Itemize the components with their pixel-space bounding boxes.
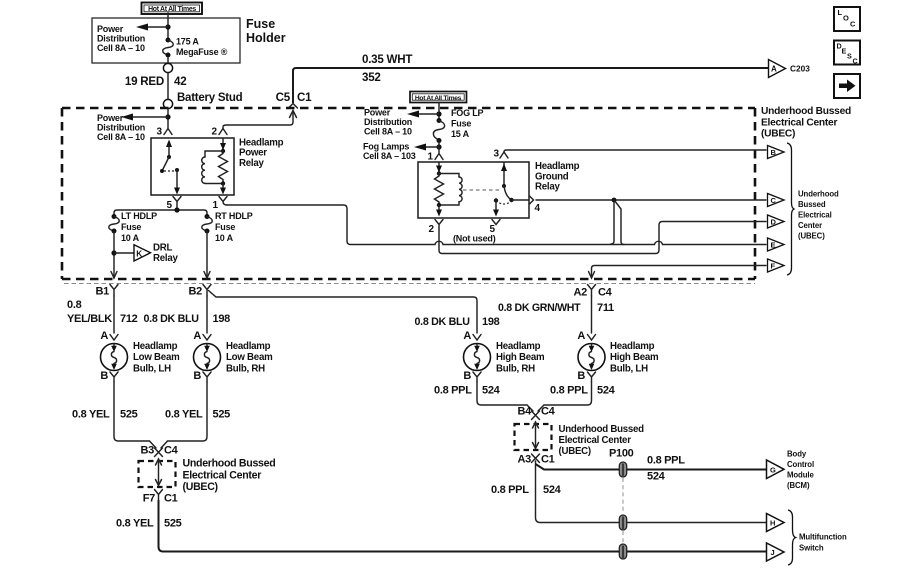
relay coil (power relay)	[202, 139, 228, 195]
svg-text:524: 524	[543, 484, 562, 496]
svg-text:Power: Power	[97, 24, 124, 34]
label Body Control Module (BCM)	[787, 450, 814, 491]
svg-text:0.8 YEL: 0.8 YEL	[116, 518, 154, 530]
UBEC pass-through box (high beam)	[515, 422, 552, 450]
svg-text:0.8 DK BLU: 0.8 DK BLU	[415, 316, 471, 328]
connector P100 (pass-through on H wire)	[619, 515, 626, 530]
node junction to power distribution	[165, 114, 170, 119]
svg-text:FOG LP: FOG LP	[451, 108, 483, 118]
svg-text:Relay: Relay	[535, 182, 560, 193]
wire B2 tap to high beam RH	[209, 291, 478, 334]
wire junction drop to connector E	[615, 201, 625, 245]
svg-text:524: 524	[482, 385, 501, 397]
thin connector-face dashed line	[64, 283, 755, 285]
bulb headlamp low beam RH	[194, 344, 221, 371]
wire RT fuse down to B2	[206, 231, 208, 278]
svg-text:J: J	[771, 548, 775, 557]
svg-text:Multifunction: Multifunction	[799, 533, 847, 542]
connector B1	[96, 285, 118, 298]
wire battery stud into UBEC	[167, 109, 169, 129]
node DRL relay tap	[111, 250, 116, 255]
pin A headlamp high beam RH	[463, 330, 481, 342]
svg-text:1: 1	[427, 152, 433, 163]
connector B	[768, 146, 785, 159]
svg-text:K: K	[136, 250, 142, 259]
fuse FOG LP 15A	[433, 118, 444, 143]
wire 0.8 DK GRN/WHT 711	[591, 296, 593, 333]
svg-text:C4: C4	[598, 287, 613, 299]
wire bus under power relay	[114, 210, 207, 216]
svg-text:524: 524	[597, 385, 616, 397]
pin 1 of headlamp ground relay	[427, 141, 443, 163]
svg-text:2: 2	[211, 127, 217, 138]
svg-text:Power: Power	[97, 113, 124, 123]
svg-text:525: 525	[120, 409, 138, 421]
connector B2	[189, 285, 211, 298]
svg-text:19 RED: 19 RED	[125, 75, 164, 88]
svg-text:(UBEC): (UBEC)	[183, 481, 218, 493]
wire label 0.8 YEL 525	[116, 518, 182, 530]
svg-text:0.8 PPL: 0.8 PPL	[647, 455, 685, 467]
label Power Distribution Cell 8A-10 (fuse holder)	[97, 24, 145, 53]
svg-text:(BCM): (BCM)	[787, 481, 810, 490]
pin 4 of headlamp ground relay	[530, 196, 541, 214]
node battery feed junction in fuse holder	[165, 24, 170, 29]
node Battery Stud	[163, 99, 172, 108]
wire 0.8 PPL 524 RH	[477, 382, 533, 411]
svg-text:B: B	[193, 370, 201, 382]
svg-text:High Beam: High Beam	[496, 352, 545, 363]
svg-text:Headlamp: Headlamp	[226, 341, 271, 352]
pin 2 of headlamp ground relay	[428, 220, 443, 236]
wire 0.8 PPL 524 LH	[538, 382, 592, 411]
label Headlamp Low Beam Bulb, RH	[226, 341, 273, 374]
svg-text:0.8 DK BLU: 0.8 DK BLU	[144, 313, 200, 325]
svg-text:Fuse: Fuse	[246, 17, 275, 31]
pin B headlamp high beam RH	[463, 370, 481, 382]
svg-text:Relay: Relay	[239, 158, 264, 169]
svg-text:Bulb, LH: Bulb, LH	[610, 363, 648, 374]
svg-text:Power: Power	[364, 108, 391, 118]
svg-text:B1: B1	[96, 286, 110, 298]
svg-text:711: 711	[597, 302, 614, 314]
label Power Distribution Cell 8A-10 (UBEC)	[97, 113, 145, 142]
label Underhood Bussed Electrical Center (UBEC) low beam	[183, 458, 276, 494]
pin 5 of headlamp ground relay (not used)	[453, 220, 500, 244]
svg-text:A: A	[100, 330, 108, 342]
svg-text:352: 352	[362, 71, 381, 84]
svg-text:P100: P100	[609, 448, 634, 460]
svg-text:Electrical Center: Electrical Center	[183, 470, 262, 482]
connector H (multifunction switch)	[767, 514, 785, 532]
label LT HDLP Fuse 10 A	[121, 211, 157, 243]
svg-text:O: O	[843, 14, 849, 23]
wire label 0.8 YEL/BLK 712	[67, 299, 138, 325]
wire 0.8 YEL 525 to multifunction switch J	[159, 500, 767, 552]
wire to DRL relay	[114, 252, 134, 254]
wire label 0.8 PPL 524 (drop)	[491, 484, 562, 496]
svg-text:524: 524	[647, 471, 666, 483]
svg-text:Cell 8A – 10: Cell 8A – 10	[97, 43, 145, 53]
svg-text:Low Beam: Low Beam	[226, 352, 273, 363]
wire label 0.35 WHT 352	[362, 53, 412, 84]
pin B headlamp low beam RH	[193, 370, 211, 382]
label "Hot At All Times" (fuse holder)	[142, 3, 203, 15]
svg-text:0.8 PPL: 0.8 PPL	[491, 484, 529, 496]
svg-text:Bussed: Bussed	[798, 200, 826, 209]
svg-text:Control: Control	[787, 460, 814, 469]
wire arrow to Power Distribution (UBEC)	[121, 114, 168, 121]
pin 3 of headlamp power relay	[156, 127, 172, 138]
svg-text:Distribution: Distribution	[97, 123, 145, 133]
brace UBEC connectors	[787, 143, 795, 275]
svg-text:F: F	[771, 262, 776, 271]
svg-text:0.8 YEL: 0.8 YEL	[72, 409, 110, 421]
connector J (multifunction switch)	[767, 543, 785, 561]
ring terminal at fuse holder	[163, 63, 172, 72]
bulb headlamp low beam LH	[101, 344, 128, 371]
wire label 0.8 PPL 524 LH	[550, 385, 616, 397]
pin B headlamp high beam LH	[577, 370, 595, 382]
wire power relay pin1 to connector E	[227, 205, 766, 245]
label Multifunction Switch	[799, 533, 847, 553]
wire pin2 to connector D	[439, 222, 766, 254]
svg-text:Underhood: Underhood	[798, 190, 839, 199]
svg-text:(UBEC): (UBEC)	[761, 129, 795, 140]
svg-text:C1: C1	[541, 454, 555, 466]
label Underhood Bussed Electrical Center (UBEC) top right	[761, 106, 851, 140]
node fog power junction	[436, 111, 441, 116]
connector A2 C4	[574, 285, 613, 299]
svg-text:Bulb, RH: Bulb, RH	[496, 363, 535, 374]
svg-text:Underhood Bussed: Underhood Bussed	[559, 424, 645, 435]
svg-text:C5: C5	[276, 91, 291, 104]
svg-text:10 A: 10 A	[215, 233, 234, 243]
svg-text:Headlamp: Headlamp	[496, 341, 541, 352]
connector A3 C1	[518, 454, 555, 466]
svg-text:Cell 8A – 10: Cell 8A – 10	[97, 132, 145, 142]
connector P100 (pass-through on J wire)	[619, 544, 626, 559]
fuse 175A MegaFuse	[163, 38, 174, 58]
relay box: headlamp power relay	[151, 138, 234, 195]
svg-text:B2: B2	[189, 286, 203, 298]
wire label 19 RED 42	[125, 75, 187, 88]
svg-text:0.8 PPL: 0.8 PPL	[434, 385, 472, 397]
relay switch contact (ground relay)	[493, 163, 529, 217]
node headlamp feed junction	[612, 198, 617, 203]
svg-text:3: 3	[156, 127, 162, 138]
wire label 0.8 PPL 524 RH	[434, 385, 501, 397]
value label 175 A MegaFuse	[176, 37, 228, 58]
svg-text:Module: Module	[787, 471, 814, 480]
wire A3 C1 down to multifunction switch H	[536, 461, 767, 523]
wire from Hot At All Times to fuse F1	[167, 13, 169, 39]
svg-text:A: A	[771, 65, 777, 74]
svg-text:Electrical: Electrical	[798, 211, 832, 220]
svg-text:Underhood Bussed: Underhood Bussed	[761, 106, 851, 117]
connector F	[768, 259, 785, 272]
svg-text:(Not used): (Not used)	[453, 234, 496, 244]
svg-text:525: 525	[164, 518, 182, 530]
wire 0.8 DK BLU 198 (B2 to RH low bulb)	[206, 296, 208, 333]
wire junction drop to low-beam feed	[611, 200, 614, 244]
bulb headlamp high beam LH	[578, 344, 605, 371]
connector G (BCM)	[767, 460, 785, 479]
svg-text:198: 198	[482, 316, 500, 328]
P100 dashed gang line lower	[622, 531, 624, 543]
svg-text:F7: F7	[143, 493, 155, 505]
next-page arrow box	[834, 74, 860, 98]
label RT HDLP Fuse 10 A	[215, 211, 253, 243]
wire pin4 to connector C	[536, 199, 766, 201]
connector D	[768, 215, 785, 228]
connector C	[768, 194, 785, 207]
svg-text:Low Beam: Low Beam	[133, 352, 180, 363]
pin A headlamp low beam RH	[193, 330, 211, 342]
pin 3 of headlamp ground relay	[493, 149, 508, 160]
relay coil (ground relay)	[435, 163, 463, 217]
svg-text:A: A	[577, 330, 585, 342]
wire LT fuse down to B1	[113, 231, 115, 278]
connector B3 C4	[141, 445, 179, 457]
wire label 0.8 DK GRN/WHT 711	[498, 302, 614, 314]
svg-text:B: B	[463, 370, 471, 382]
pin 2 of headlamp power relay	[211, 127, 227, 138]
svg-text:Center: Center	[798, 221, 822, 230]
label Headlamp High Beam Bulb, RH	[496, 341, 545, 374]
wire label 0.8 YEL 525 LH	[72, 409, 138, 421]
svg-text:S: S	[847, 52, 852, 61]
svg-text:Relay: Relay	[153, 253, 178, 264]
svg-text:Holder: Holder	[246, 31, 286, 45]
connector E	[768, 238, 785, 251]
wire arrow to Power Distribution	[136, 24, 168, 31]
svg-text:4: 4	[535, 203, 541, 214]
label Headlamp Low Beam Bulb, LH	[133, 341, 180, 374]
svg-text:YEL/BLK: YEL/BLK	[67, 313, 112, 325]
fuse LT HDLP 10A	[109, 214, 120, 234]
svg-text:0.8 PPL: 0.8 PPL	[550, 385, 588, 397]
svg-text:15 A: 15 A	[451, 129, 470, 139]
pin 1 of headlamp power relay	[212, 197, 227, 212]
svg-text:E: E	[771, 241, 776, 250]
svg-text:B: B	[100, 370, 108, 382]
svg-text:C4: C4	[541, 406, 556, 418]
svg-text:Switch: Switch	[799, 544, 824, 553]
svg-text:C1: C1	[297, 91, 312, 104]
wire hot feed to fog fuse	[438, 103, 440, 121]
svg-text:Hot At All Times: Hot At All Times	[415, 95, 462, 102]
dashed actuation link	[463, 189, 499, 191]
wire 0.8 YEL 525 RH	[161, 382, 207, 448]
svg-text:42: 42	[174, 75, 186, 88]
wire label 0.8 YEL 525 RH	[165, 409, 230, 421]
svg-text:2: 2	[428, 224, 434, 235]
svg-text:175 A: 175 A	[176, 37, 199, 47]
connector B4 C4	[518, 406, 556, 420]
svg-text:Fog Lamps: Fog Lamps	[363, 142, 409, 152]
svg-text:H: H	[770, 519, 775, 528]
svg-text:Battery Stud: Battery Stud	[177, 92, 243, 104]
wire pin3 to connector B	[504, 150, 766, 152]
svg-text:Hot At All Times: Hot At All Times	[148, 6, 196, 13]
svg-text:Bulb, RH: Bulb, RH	[226, 363, 265, 374]
pin A headlamp high beam LH	[577, 330, 595, 342]
svg-text:High Beam: High Beam	[610, 352, 659, 363]
svg-text:MegaFuse ®: MegaFuse ®	[176, 47, 228, 57]
svg-text:B4: B4	[518, 406, 533, 418]
fuse holder box	[92, 18, 240, 63]
connector P100 (pass-through on G wire)	[619, 462, 626, 477]
svg-text:Electrical Center: Electrical Center	[559, 435, 632, 446]
svg-text:A: A	[463, 330, 471, 342]
bulb headlamp high beam RH	[464, 344, 491, 371]
label Underhood Bussed Electrical Center (UBEC) right	[798, 190, 839, 241]
svg-text:E: E	[842, 47, 847, 56]
svg-text:LT HDLP: LT HDLP	[121, 211, 157, 221]
node pin5 to fuse bus	[174, 207, 179, 212]
svg-text:Fuse: Fuse	[121, 222, 141, 232]
svg-text:L: L	[838, 8, 843, 17]
svg-text:A2: A2	[574, 287, 588, 299]
svg-text:Body: Body	[787, 450, 807, 459]
svg-text:D: D	[771, 218, 777, 227]
svg-text:A: A	[193, 330, 201, 342]
fuse RT HDLP 10A	[202, 214, 213, 234]
svg-text:Cell 8A – 10: Cell 8A – 10	[364, 127, 412, 137]
svg-text:C1: C1	[164, 493, 178, 505]
svg-text:C: C	[853, 57, 858, 66]
svg-text:Distribution: Distribution	[97, 34, 145, 44]
label FOG LP Fuse 15 A	[451, 108, 483, 139]
svg-text:Distribution: Distribution	[364, 117, 412, 127]
UBEC main dashed box	[62, 108, 755, 279]
svg-text:Bulb, LH: Bulb, LH	[133, 363, 171, 374]
wire arrow to Power Distribution (fog)	[407, 111, 439, 118]
P100 dashed gang line upper	[622, 478, 624, 514]
svg-text:DRL: DRL	[153, 243, 172, 254]
svg-text:Headlamp: Headlamp	[133, 341, 178, 352]
svg-text:RT HDLP: RT HDLP	[215, 211, 253, 221]
svg-text:C: C	[850, 20, 856, 29]
svg-text:C: C	[771, 196, 777, 205]
connector A (to C203)	[769, 60, 811, 78]
wire fuse to ring terminal	[167, 57, 169, 63]
wire label 0.8 PPL 524 (BCM)	[647, 455, 685, 483]
wire 19 RED 42	[167, 73, 169, 100]
svg-text:Headlamp: Headlamp	[610, 341, 655, 352]
label Fuse Holder	[246, 17, 286, 45]
svg-text:1: 1	[212, 200, 218, 211]
svg-text:198: 198	[213, 313, 231, 325]
label Power Distribution Cell 8A-10 (fog)	[364, 108, 412, 137]
svg-text:0.8 YEL: 0.8 YEL	[165, 409, 203, 421]
svg-text:(UBEC): (UBEC)	[798, 232, 825, 241]
DRL Relay triangle	[134, 243, 178, 265]
label Fog Lamps Cell 8A-103	[363, 142, 416, 162]
svg-text:0.35 WHT: 0.35 WHT	[362, 53, 412, 66]
DESC box	[834, 41, 860, 66]
label Headlamp Power Relay	[239, 137, 284, 169]
label Hot At All Times (fog)	[410, 92, 467, 103]
wire 0.8 PPL 524 to BCM G	[536, 464, 767, 470]
svg-text:C4: C4	[164, 445, 179, 457]
svg-text:B: B	[577, 370, 585, 382]
label Headlamp Ground Relay	[535, 161, 580, 193]
svg-text:B: B	[771, 148, 777, 157]
relay box: headlamp ground relay	[418, 162, 529, 218]
connector F7 C1	[143, 490, 178, 505]
wire 0.8 YEL/BLK 712 (B1 to LH low bulb)	[113, 296, 115, 333]
label Underhood Bussed Electrical Center (UBEC) high beam	[559, 424, 645, 457]
svg-text:Fuse: Fuse	[215, 222, 235, 232]
UBEC pass-through box (low beam)	[139, 459, 176, 487]
wire label 0.8 DK BLU 198 (high beam RH)	[415, 316, 500, 328]
connector C5 C1 at UBEC border	[223, 91, 312, 129]
svg-text:B3: B3	[141, 445, 155, 457]
svg-text:3: 3	[493, 149, 499, 160]
svg-text:(UBEC): (UBEC)	[559, 446, 591, 457]
svg-text:C203: C203	[790, 64, 810, 74]
svg-text:Cell 8A – 103: Cell 8A – 103	[363, 151, 416, 161]
svg-text:712: 712	[120, 313, 138, 325]
svg-text:Underhood Bussed: Underhood Bussed	[183, 458, 276, 470]
svg-text:Fuse: Fuse	[451, 119, 471, 129]
wire label 0.8 DK BLU 198	[144, 313, 231, 325]
node fog lamps junction	[436, 144, 441, 149]
wire 0.35 WHT 352 to C203	[293, 68, 768, 103]
svg-text:A3: A3	[518, 454, 532, 466]
svg-text:0.8 DK GRN/WHT: 0.8 DK GRN/WHT	[498, 302, 581, 314]
relay switch contact (power relay)	[160, 140, 180, 195]
pin A headlamp low beam LH	[100, 330, 118, 342]
svg-text:0.8: 0.8	[67, 299, 82, 311]
label Headlamp High Beam Bulb, LH	[610, 341, 659, 374]
pin B headlamp low beam LH	[100, 370, 118, 382]
svg-text:Electrical Center: Electrical Center	[761, 117, 837, 128]
brace multifunction switch	[788, 510, 796, 565]
wire connector F to A2 C4	[592, 266, 767, 279]
svg-text:10 A: 10 A	[121, 233, 140, 243]
svg-text:525: 525	[213, 409, 231, 421]
LOC box	[834, 7, 860, 31]
wire 0.8 YEL 525 LH	[114, 382, 156, 448]
svg-text:G: G	[770, 466, 776, 475]
wire arrow to Fog Lamps	[414, 144, 439, 151]
pin 5 of headlamp power relay	[166, 197, 181, 212]
